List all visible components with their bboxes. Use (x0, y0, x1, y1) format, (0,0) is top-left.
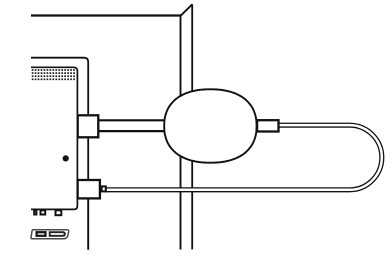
connector box C2 (USB port) (78, 180, 100, 198)
foot square 3 (56, 210, 62, 215)
nub connector tip (102, 186, 106, 191)
TV inner right lower + bottom edge (31, 199, 77, 209)
wire wall right vertical (191, 4, 193, 249)
TV outer top edge (31, 58, 88, 115)
TV outer right edge lower (87, 199, 89, 250)
TV inner right edge mid (76, 138, 78, 180)
wire top shelf line (31, 14, 181, 16)
TV outer right edge mid (87, 138, 89, 180)
indicator dot (63, 155, 69, 161)
wire cable loop core (104, 125, 382, 190)
wire stem bottom (98, 130, 175, 132)
remote left window (37, 232, 46, 236)
vent grid (32, 69, 75, 80)
dongle body U1 (164, 89, 256, 162)
TV inner top edge (31, 67, 77, 114)
foot square 2 (41, 210, 46, 214)
remote device outline (31, 230, 69, 239)
HDMI plug P1 (257, 120, 278, 131)
wire stem top (98, 119, 175, 121)
remote right window (50, 232, 65, 236)
wire wall corner diagonal (180, 4, 192, 16)
wire wall left vertical (180, 16, 182, 250)
wire cable loop outer (104, 125, 382, 190)
foot square 1 (34, 210, 36, 214)
connector box C1 (HDMI port) (78, 115, 99, 137)
